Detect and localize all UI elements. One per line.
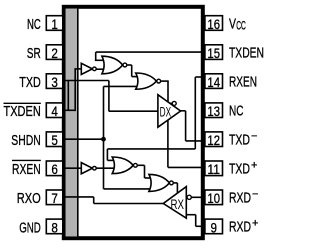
pin 15 box [205,45,223,60]
svg-text:RXEN: RXEN [229,73,257,90]
wire RXEN feed to NOR G3 [107,148,195,150]
wire to pin 11 [168,166,203,168]
wire TXD drop to DX input [108,81,110,112]
wire TXDEN pin15 horizontal [96,51,203,53]
svg-text:5: 5 [51,132,58,148]
wire inverter U3 out to NOR G1 [96,68,103,70]
svg-text:RXD: RXD [229,190,251,207]
wire inverter U4 out to NOR G3 [96,167,113,169]
junction dot SHDN node [101,137,106,142]
NOR gate G3 [112,157,133,174]
pin 7 box [46,190,63,205]
svg-text:11: 11 [207,161,220,177]
svg-text:TXD: TXD [19,74,41,91]
svg-text:10: 10 [207,190,220,206]
NOR G3 output bubble [134,163,138,167]
svg-text:8: 8 [51,219,58,235]
wire G2 out drop [167,81,169,103]
wire pin4 horizontal [64,109,75,111]
wire NOR G4 out [174,182,178,184]
pin 10 box [205,190,223,205]
svg-text:7: 7 [51,190,58,206]
wire NOR G3 out [138,164,145,166]
pin 12 box [205,132,223,147]
wire DX input [109,110,158,112]
svg-text:4: 4 [51,103,58,119]
svg-text:9: 9 [210,219,217,235]
pin 6 label overline [12,159,41,161]
pin 4 label overline [4,102,41,104]
wire NOR G1 out [127,64,131,66]
pin 11 box [205,161,223,176]
wire RX out step up [93,197,95,204]
wire TXDEN step down [95,52,97,60]
svg-text:RXO: RXO [17,190,41,207]
svg-text:3: 3 [51,74,58,90]
svg-text:GND: GND [19,219,41,236]
wire RX bottom drop [195,215,197,227]
svg-text:15: 15 [207,45,220,61]
wire RXEN pin6 horizontal [64,167,81,169]
NOR G2 output bubble [157,79,161,83]
wire G4 drop to RX enable [176,183,178,194]
RX inverting input bubble [187,195,191,199]
IC left edge shading bar [66,9,77,237]
svg-text:12: 12 [207,132,220,148]
svg-text:V: V [229,15,236,32]
pin 16 box [205,16,223,31]
inverter U3 output bubble [93,67,97,71]
svg-text:2: 2 [51,45,58,61]
pin 2 box [46,45,63,60]
pin 5 box [46,132,63,147]
svg-text:TXD: TXD [229,161,250,178]
wire DX output [180,110,186,112]
wire RXEN pin14 stub [195,76,203,78]
svg-text:SHDN: SHDN [11,132,41,149]
wire pin 10 to RX bubble [191,196,203,198]
pin 6 box [46,161,63,176]
inverter U4 output bubble [93,166,97,170]
NOR G1 output bubble [123,63,127,67]
wire G2 jog to DX enable bubble [168,102,172,104]
pin 4 box [46,103,63,118]
wire TXD pin3 horizontal [64,80,109,82]
wire RX bottom input [186,214,195,216]
wire SHDN pin5 horizontal [64,138,104,140]
wire NOR G2 top input [132,76,139,78]
svg-text:TXD: TXD [229,132,250,149]
pin 14 box [205,74,223,89]
NOR gate G1 [102,56,123,74]
receiver RX U2 triangle [163,187,186,219]
wire DX inverting output from bottom slant [167,120,169,168]
wire NOR G4 top input [145,177,152,179]
wire inverter U3 input [74,68,81,70]
IC body U1 outline [64,7,203,238]
svg-text:−: − [251,131,257,143]
wire SHDN to NOR G2 bottom input [104,85,139,87]
svg-text:14: 14 [207,74,220,90]
pin 9 box [205,219,223,234]
svg-text:1: 1 [51,16,58,32]
svg-text:13: 13 [207,103,220,119]
pin 1 box [46,16,63,31]
svg-text:DX: DX [160,103,172,119]
wire RX output [94,203,164,205]
svg-text:TXDEN: TXDEN [229,44,264,61]
driver DX U1 triangle [158,95,181,128]
inverter U3 (TXDEN path) [81,63,92,74]
wire to pin 12 [186,140,203,142]
pin 8 box [46,219,63,234]
svg-text:RXEN: RXEN [12,161,41,178]
svg-text:+: + [252,218,258,230]
wire branch A vertical along border [67,81,69,111]
wire NOR G2 out [161,80,169,82]
pin 13 box [205,103,223,118]
DX enable bubble [172,101,176,105]
wire DX out drop to pin 12 row [185,111,187,141]
pin 3 box [46,74,63,89]
svg-text:RX: RX [170,196,184,212]
wire drop to NOR G2 [131,65,133,77]
wire RXEN step down [106,149,108,161]
wire SHDN to NOR G4 bottom input [104,188,152,190]
wire RXEN vertical [194,77,196,149]
NOR gate G4 [149,174,170,191]
svg-text:CC: CC [236,21,246,33]
inverter U4 (RXEN path) [81,163,92,174]
svg-text:RXD: RXD [229,219,251,236]
wire riser B to inverter [74,69,76,111]
NOR gate G2 [136,73,157,89]
svg-text:NC: NC [229,103,244,120]
wire to pin 9 [196,225,203,227]
svg-text:NC: NC [27,16,41,33]
svg-text:16: 16 [207,16,220,32]
svg-text:+: + [251,160,257,172]
wire RXO pin7 horizontal [64,196,94,198]
wire NOR G1 top input [95,59,104,61]
wire drop to NOR G4 [144,165,146,178]
svg-text:6: 6 [51,161,58,177]
wire SHDN vertical [103,86,105,188]
svg-text:−: − [252,189,258,201]
NOR G4 output bubble [170,181,174,185]
wire NOR G3 top input [107,159,113,161]
IC shading bar edge line [77,9,79,237]
svg-text:TXDEN: TXDEN [4,103,41,120]
svg-text:SR: SR [27,45,41,62]
